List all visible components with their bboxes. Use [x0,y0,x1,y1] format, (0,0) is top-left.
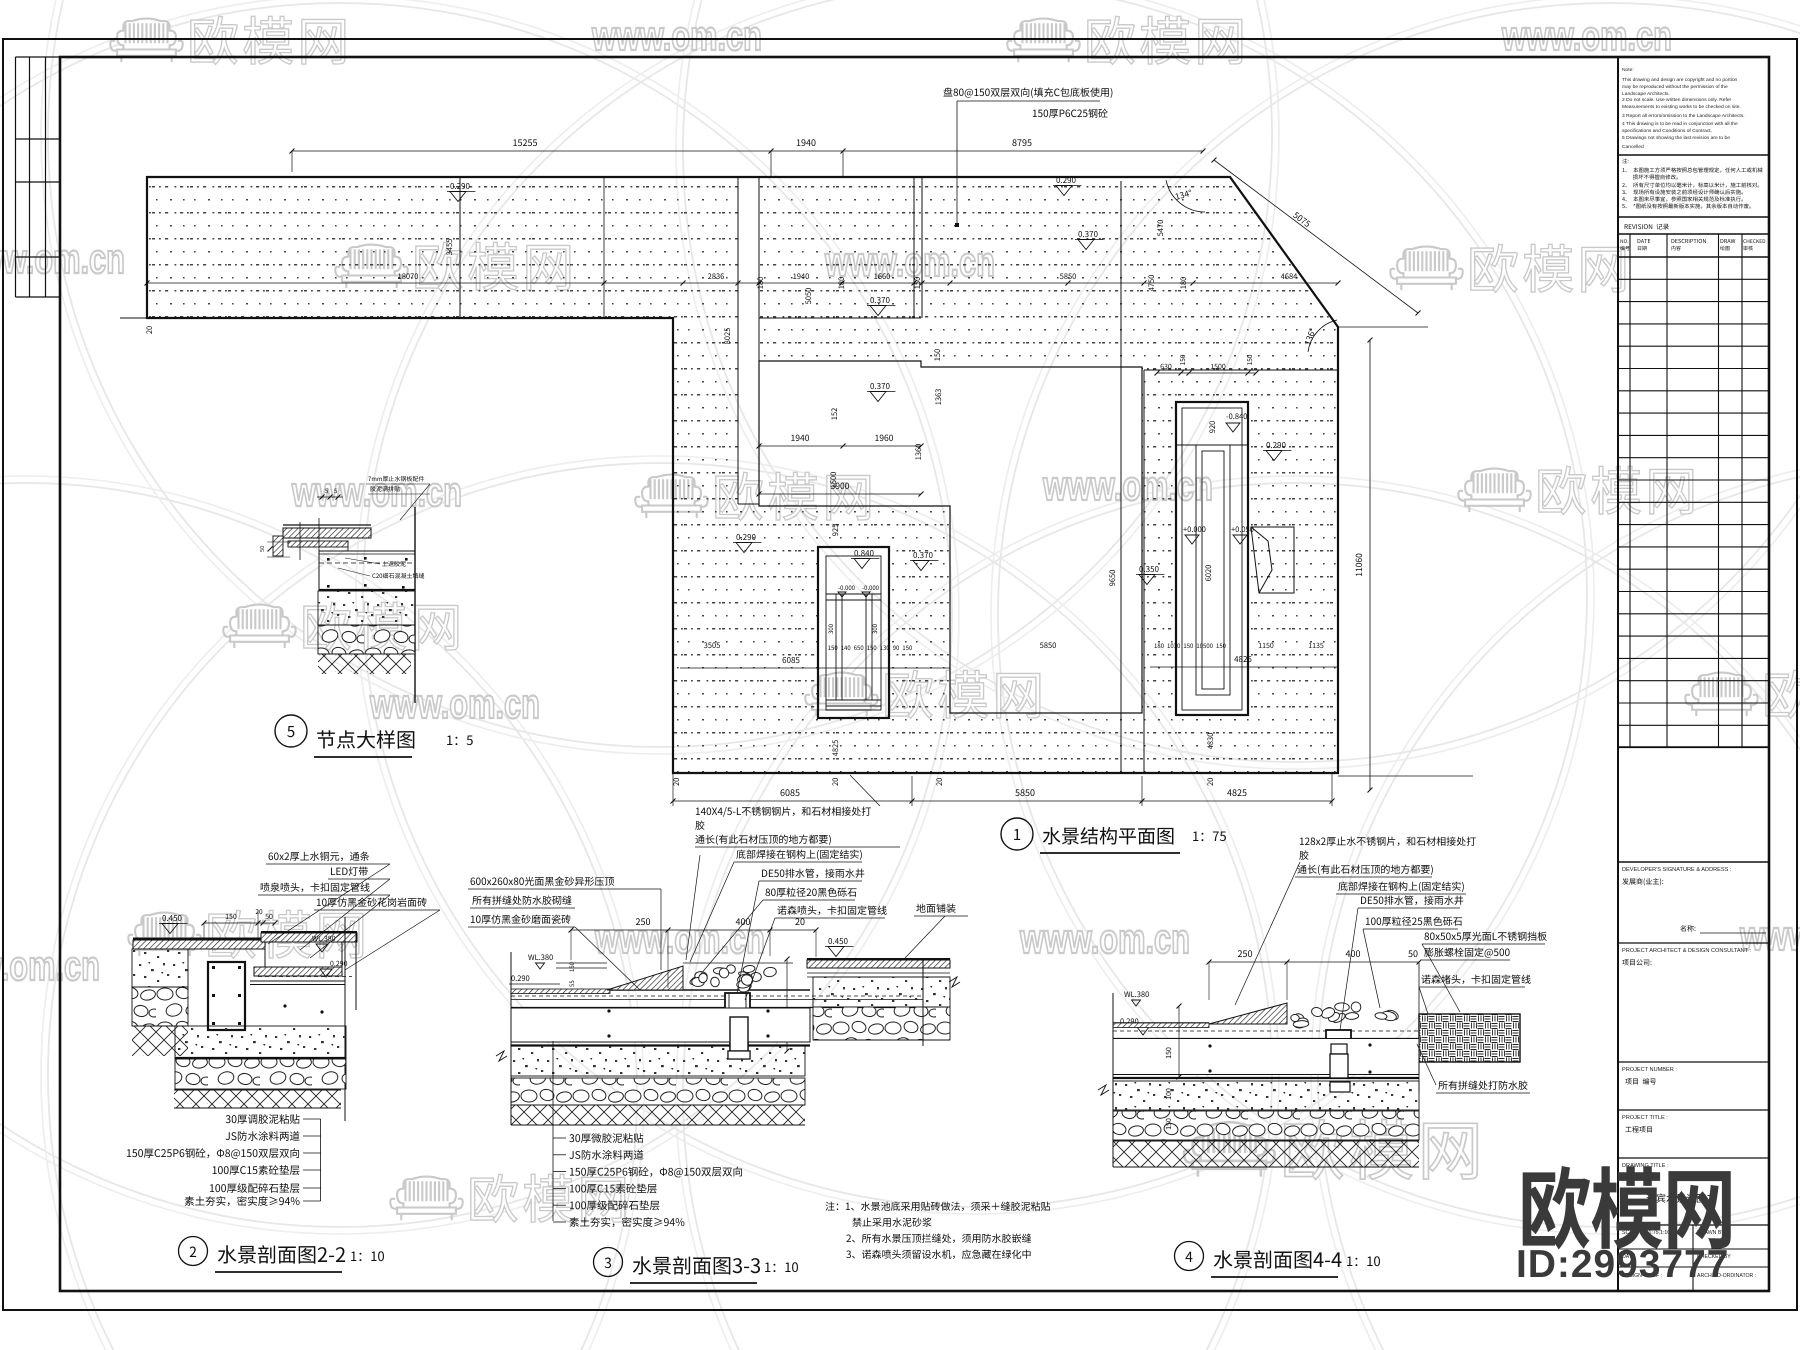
svg-text:4 This drawing is to be read i: 4 This drawing is to be read in conjunct… [1622,121,1738,127]
svg-text:www.om.cn: www.om.cn [1042,462,1213,509]
svg-text:www.om.cn: www.om.cn [591,12,762,59]
svg-text:Landscape Architects.: Landscape Architects. [1622,91,1670,97]
svg-text:5 Drawings not showing the las: 5 Drawings not showing the last revision… [1622,135,1730,141]
svg-text:Note:: Note: [1622,67,1634,73]
svg-text:Measurements to existing works: Measurements to existing works to be che… [1622,104,1741,110]
svg-text:PROJECT NUMBER :: PROJECT NUMBER : [1622,1067,1677,1073]
svg-text:ARCH CO-ORDINATOR :: ARCH CO-ORDINATOR : [1697,1273,1756,1279]
svg-text:www.om.cn: www.om.cn [291,468,462,515]
svg-text:www.om.cn: www.om.cn [0,942,100,989]
svg-text:This drawing and design are co: This drawing and design are copyright an… [1622,77,1738,83]
svg-text:PROJECT TITLE :: PROJECT TITLE : [1622,1115,1668,1121]
svg-text:specifications and Conditions: specifications and Conditions of Contrac… [1622,128,1712,134]
svg-text:www.om.cn: www.om.cn [594,915,765,962]
svg-text:www.om.cn: www.om.cn [1019,915,1190,962]
svg-text:www.om.cn: www.om.cn [1501,12,1672,59]
svg-text:3 Report all errors/omission t: 3 Report all errors/omission to the Land… [1622,113,1745,119]
svg-text:DEVELOPER'S SIGNATURE & ADDRE: DEVELOPER'S SIGNATURE & ADDRESS : [1622,867,1732,873]
svg-text:may be reproduced without the: may be reproduced without the permission… [1622,84,1728,90]
svg-text:www.om.cn: www.om.cn [369,680,540,727]
svg-text:2 Do not scale. Use written di: 2 Do not scale. Use written dimensions o… [1622,97,1732,103]
svg-text:PROJECT ARCHITECT & DESIGN CON: PROJECT ARCHITECT & DESIGN CONSULTANT : [1622,948,1752,954]
svg-text:Cancelled: Cancelled [1622,144,1644,150]
svg-text:www.om.cn: www.om.cn [0,235,125,282]
